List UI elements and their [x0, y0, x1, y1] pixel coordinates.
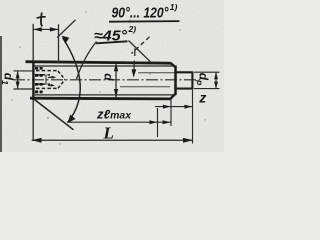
z left arrow (outside) [163, 105, 171, 109]
l max arrow at thread end [149, 120, 157, 124]
chamfer leader line (to right chamfer) [129, 41, 153, 64]
z dimension line [155, 106, 192, 108]
screw body top edge [26, 62, 171, 64]
d top arrow [114, 63, 118, 71]
socket flat hidden line lower [36, 83, 50, 85]
dog point face extension line down [192, 90, 194, 144]
cone side extension line lower-left (D2) [34, 99, 74, 130]
angle dimension arc 90..120 [63, 38, 81, 123]
socket flat hidden line upper [36, 74, 50, 76]
drill cone hidden line lower [58, 80, 65, 89]
socket hole hidden line upper [36, 70, 58, 72]
screw body left face [32, 61, 34, 100]
small mark arrow in socket lower [48, 84, 52, 86]
d1 dimension lower extension [14, 88, 34, 90]
svg-text:zℓmax: zℓmax [96, 107, 131, 121]
thread chamfer top-right [170, 63, 175, 67]
thread section marks row 2 [35, 74, 43, 77]
underline of 45 [96, 41, 128, 43]
t dimension right extension line [58, 24, 60, 62]
dog point right face [191, 72, 193, 90]
dog point core line into body (lower, faint) [120, 86, 170, 88]
z right arrow [184, 105, 192, 109]
screw body right face [174, 66, 177, 95]
svg-text:2): 2) [128, 24, 137, 34]
d1 bottom arrow [16, 82, 20, 89]
L left arrow [32, 138, 42, 143]
thread minor line bottom [34, 94, 175, 96]
right face extension line down [170, 100, 172, 127]
label t [41, 13, 43, 26]
dog point top edge [177, 71, 193, 73]
t dimension left extension line (left face extended up) [32, 24, 34, 61]
axis leader arrowhead [132, 69, 137, 77]
d dimension line [115, 63, 117, 98]
thread minor line top [34, 65, 175, 67]
small mark arrow in socket upper [48, 76, 53, 78]
dp bottom arrow [214, 82, 218, 89]
dp dimension upper extension [194, 71, 220, 73]
angle arc lower arrowhead [68, 115, 76, 124]
dp dimension lower extension [194, 88, 220, 90]
dp dimension line [215, 72, 217, 88]
thread chamfer bottom-right [170, 94, 175, 99]
svg-text:1): 1) [170, 2, 178, 12]
L right arrow [183, 138, 193, 143]
dashed vertical leader to axis [133, 49, 136, 71]
thread section marks at left face (row 1) [35, 67, 43, 70]
page scan edge (left border) [0, 36, 2, 152]
drill cone hidden line upper [58, 71, 65, 80]
underline of 90..120 [109, 20, 180, 23]
thread section marks row 3 [35, 83, 43, 86]
svg-text:z: z [198, 90, 206, 106]
centerline (screw axis, dash-dot) [13, 79, 201, 81]
svg-text:L: L [103, 124, 114, 143]
t dimension right arrow [50, 27, 58, 31]
l max arrow at right face [163, 120, 171, 124]
scan dirt speckles [11, 11, 206, 144]
d bottom arrow [114, 89, 118, 97]
thread section marks row 4 [35, 91, 43, 94]
dog point core line into body (upper, faint) [138, 72, 175, 74]
cone side extension line upper-left (D1) [57, 20, 75, 38]
paper background [0, 0, 224, 152]
angle arc upper arrowhead [62, 36, 69, 44]
scan grain [0, 0, 224, 152]
thread end extension line down [157, 108, 159, 137]
d1 dimension line [17, 71, 19, 89]
leader from 45 label to drill cone [77, 42, 97, 80]
L dimension line [32, 139, 193, 141]
screw body bottom edge [30, 97, 171, 101]
l max dimension line [67, 121, 171, 123]
svg-text:90°... 120°: 90°... 120° [112, 6, 169, 22]
d1 top arrow [16, 71, 20, 78]
centerline cross tick [45, 75, 47, 85]
t dimension line [33, 28, 58, 30]
svg-text:d: d [102, 73, 116, 81]
dog point bottom edge [177, 88, 193, 90]
chamfer dashed cross line [132, 37, 150, 54]
d1 dimension upper extension [14, 70, 34, 72]
socket hole hidden line lower [36, 87, 58, 89]
dp top arrow [214, 72, 218, 79]
L dimension left extension (left face extended down) [32, 100, 34, 141]
t dimension left arrow [33, 27, 41, 31]
